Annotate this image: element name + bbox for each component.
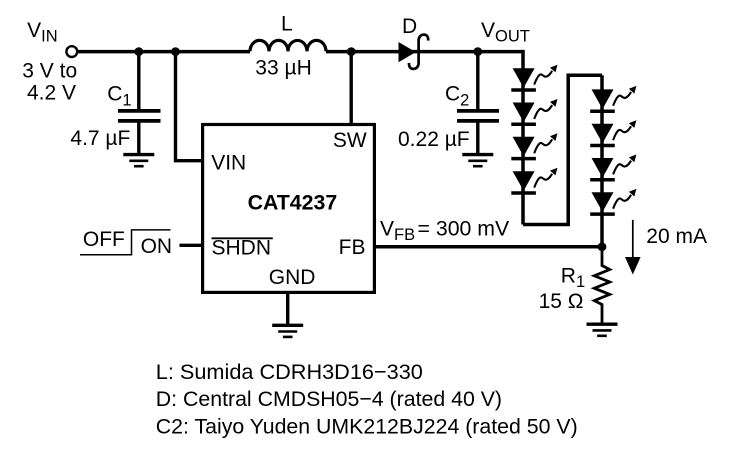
svg-text:33 µH: 33 µH [255, 57, 311, 80]
svg-text:VOUT: VOUT [481, 19, 530, 45]
svg-text:15 Ω: 15 Ω [539, 290, 584, 313]
svg-text:L: Sumida CDRH3D16−330: L: Sumida CDRH3D16−330 [156, 359, 423, 384]
svg-text:R1: R1 [561, 265, 585, 291]
svg-text:L: L [281, 13, 293, 36]
svg-text:0.22 µF: 0.22 µF [398, 128, 470, 151]
svg-text:VFB: VFB [380, 218, 415, 244]
svg-text:CAT4237: CAT4237 [248, 191, 338, 215]
svg-text:C2: C2 [445, 83, 469, 110]
svg-text:= 300 mV: = 300 mV [418, 217, 511, 241]
svg-text:FB: FB [339, 236, 366, 259]
svg-text:VIN: VIN [27, 19, 58, 45]
svg-text:D: D [402, 15, 417, 38]
svg-text:VIN: VIN [211, 152, 246, 175]
svg-text:SW: SW [333, 129, 367, 152]
svg-text:GND: GND [269, 266, 316, 289]
svg-text:4.2 V: 4.2 V [27, 82, 76, 105]
svg-text:20 mA: 20 mA [646, 225, 707, 248]
svg-text:OFF: OFF [83, 228, 125, 251]
svg-text:4.7 µF: 4.7 µF [70, 127, 130, 150]
svg-text:D: Central CMDSH05−4 (rated 40: D: Central CMDSH05−4 (rated 40 V) [156, 387, 502, 411]
svg-text:C1: C1 [107, 83, 131, 110]
svg-text:SHDN: SHDN [212, 236, 272, 259]
svg-text:C2: Taiyo Yuden UMK212BJ224 (r: C2: Taiyo Yuden UMK212BJ224 (rated 50 V) [156, 414, 578, 438]
svg-text:3 V to: 3 V to [22, 60, 77, 83]
svg-text:ON: ON [141, 235, 173, 258]
